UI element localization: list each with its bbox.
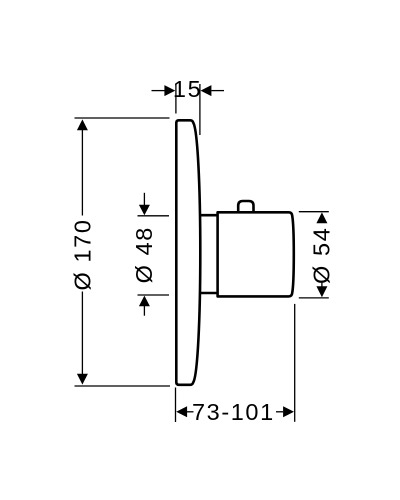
svg-text:15: 15	[173, 76, 202, 102]
dimension Ø54: lower connector shaft	[321, 283, 323, 288]
dimension 15: right arrowhead	[201, 85, 212, 96]
sleeve neck top edge (Ø48)	[199, 214, 218, 217]
thermostat handle knob (Ø54)	[218, 212, 294, 296]
dimension 73-101: left shaft	[187, 411, 194, 413]
dimension Ø48: top tick line	[138, 215, 170, 217]
dimension Ø170: upper shaft	[81, 130, 83, 216]
dimension Ø170: bottom extension line	[75, 385, 171, 387]
safety stop button on knob	[238, 201, 253, 212]
dimension 15: left extension line	[175, 84, 177, 114]
dimension Ø54: bottom extension line	[299, 297, 329, 299]
dimension 15: right shaft	[211, 90, 224, 92]
dimension 73-101: right extension line	[294, 304, 296, 422]
dimension 15: left arrowhead	[164, 85, 175, 96]
svg-text:Ø 170: Ø 170	[70, 218, 96, 290]
escutcheon plate (side view, Ø170)	[176, 120, 200, 385]
dimension 73-101: right shaft	[276, 411, 283, 413]
dimension Ø48: bottom tick line	[138, 294, 170, 296]
dimension 73-101: left arrowhead	[176, 406, 187, 417]
dimension Ø170: lower shaft	[81, 292, 83, 375]
dimension Ø170: down arrowhead	[77, 374, 88, 385]
dimension Ø54: down arrowhead	[316, 286, 327, 297]
dimension 73-101: left extension line	[175, 388, 177, 423]
dimension Ø170: up arrowhead	[77, 119, 88, 130]
svg-text:Ø 54: Ø 54	[309, 227, 335, 284]
dimension 73-101: right arrowhead	[283, 406, 294, 417]
dimension Ø54: up arrowhead	[316, 212, 327, 223]
dimension Ø54: top extension line	[299, 211, 329, 213]
sleeve neck bottom edge	[200, 292, 218, 295]
svg-text:Ø 48: Ø 48	[131, 226, 157, 283]
dimension Ø48: up arrowhead	[139, 296, 150, 307]
dimension 15: right extension line	[199, 84, 201, 135]
dimension Ø48: down arrowhead	[139, 205, 150, 216]
dimension Ø48: top shaft	[143, 193, 145, 205]
dimension 15: left shaft	[152, 90, 166, 92]
svg-text:73-101: 73-101	[192, 399, 275, 425]
dimension Ø48: bottom shaft	[143, 306, 145, 316]
dimension Ø170: top extension line	[75, 117, 170, 119]
